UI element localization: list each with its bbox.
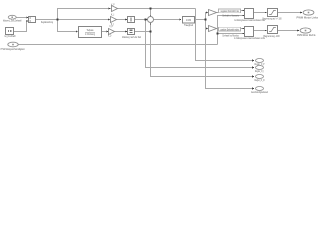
wire D monitor down to Regler_O_D [151,32,253,77]
mux1 [245,9,254,19]
framed label positive Drehzahl [219,27,241,31]
svg-text:Drehzahl zu Vorwaerts: Drehzahl zu Vorwaerts [223,14,240,17]
svg-text:Begrenzung auf +/- 100: Begrenzung auf +/- 100 [263,16,282,20]
sum circle S2 [148,17,154,23]
wire inport1 to sum1 [16,17,28,19]
svg-text:Tiefpass: Tiefpass [87,29,95,32]
saturation1 [268,9,278,17]
wire TF out to gainD [102,31,109,33]
wire mux2 to saturation2 [254,30,266,32]
wire mux1 to saturation1 [254,12,266,14]
svg-text:1/JM: 1/JM [186,19,191,22]
wire gain rechts to mux2 [217,28,243,30]
svg-text:K_P: K_P [111,3,114,6]
framed label negative Drehzahl [219,9,241,13]
svg-text:Geschwindigkeitswert: Geschwindigkeitswert [251,91,268,94]
svg-text:zu Vektorgroessen zusammenfass: zu Vektorgroessen zusammenfassen links [234,18,265,22]
port arrowheads [27,8,303,90]
wire feedback Ist_Drehzahl to sum1 [14,21,28,32]
svg-text:Regler_O_D: Regler_O_D [255,79,265,82]
gain K_D [109,29,115,35]
svg-text:K_D: K_D [108,36,112,38]
svg-text:PWM Motor Links: PWM Motor Links [297,15,319,19]
svg-text:positive Drehzahl rechts: positive Drehzahl rechts [221,29,240,32]
gain motor links [209,10,217,16]
wire saturation2 to PWM rechts [278,30,298,32]
block 1/JM [183,17,195,24]
mux2 [245,27,254,37]
transfer fcn block [79,27,102,38]
wire P into sum2 top [150,9,152,17]
gain motor rechts [209,26,217,32]
wire saturation1 to PWM links [278,12,301,14]
inport block Ist_Drehzahl [6,28,14,35]
svg-text:K_D: K_D [110,25,113,28]
wire gain links to mux1 [217,11,243,13]
gain K_I [111,17,117,23]
svg-text:Regelabweichung: Regelabweichung [41,20,53,24]
saturation2 [268,26,278,34]
svg-text:negative Drehzahl links: negative Drehzahl links [221,10,240,13]
outport oval PWM Motor Links [303,10,314,15]
svg-text:K_I: K_I [111,13,115,16]
outport oval Geschwindigkeitswert [256,87,264,91]
wire sum2 to 1/JM [154,19,182,21]
wire junction down to gain rechts [206,20,209,29]
wire gainI to integrator [117,19,128,21]
derivative block [128,29,135,35]
wire integrator to sum2 [135,19,148,21]
svg-text:Traegheit: Traegheit [184,24,193,27]
outport oval Regler_O_D [256,75,264,79]
svg-text:Motoren1_Soll_Drehzahl: Motoren1_Soll_Drehzahl [3,18,22,22]
svg-text:1.Ordnung: 1.Ordnung [85,33,96,36]
wire speed up branch to mux1 in2 [218,16,243,45]
inport oval Motoren1_Soll_Drehzahl [8,15,16,19]
svg-text:Regler_O_P: Regler_O_P [255,63,265,66]
wire P monitor down to Regler_O_P [196,9,253,61]
gain K_P [112,6,118,12]
outport oval PWM Motor Rechts [300,28,311,33]
svg-text:PWM Motor Rechts: PWM Motor Rechts [297,33,316,37]
wire D branch down [58,20,78,32]
wire derivative out [135,31,151,33]
svg-text:Begrenzung -100: Begrenzung -100 [264,34,280,38]
wire junction up to gain links [206,13,209,20]
junction dots [57,8,219,35]
wire D into sum2 bottom [150,23,152,32]
svg-text:Regler_O_I: Regler_O_I [255,70,264,73]
wire ITSM speed main [18,44,218,46]
svg-text:Ist_Drehzahl: Ist_Drehzahl [5,34,16,38]
wire speed to mux2 in2 [218,33,243,35]
wire speed monitor down to Geschwindigkeit [206,29,253,89]
svg-text:Ableitung nach der Zeit: Ableitung nach der Zeit [122,35,141,39]
svg-text:ITSM Zeitgeschwindigkeit: ITSM Zeitgeschwindigkeit [1,47,25,51]
wire gainD to derivative [115,31,128,33]
sum block S1 [29,17,36,23]
integrator block [128,17,135,23]
inport oval ITSM Zeitgeschwindigkeit [8,42,18,47]
wire error main [36,19,111,21]
wire P branch up [58,9,112,20]
outport oval Regler_O_I [256,66,264,70]
outport oval Regler_O_P [256,59,264,63]
svg-text:zu Vektorgroessen zusammenfass: zu Vektorgroessen zusammenfassen rechts [234,36,265,40]
wire gainP out [118,8,196,10]
wire I monitor down to Regler_O_I [146,20,253,68]
wire 1/JM out to junction [195,19,206,21]
